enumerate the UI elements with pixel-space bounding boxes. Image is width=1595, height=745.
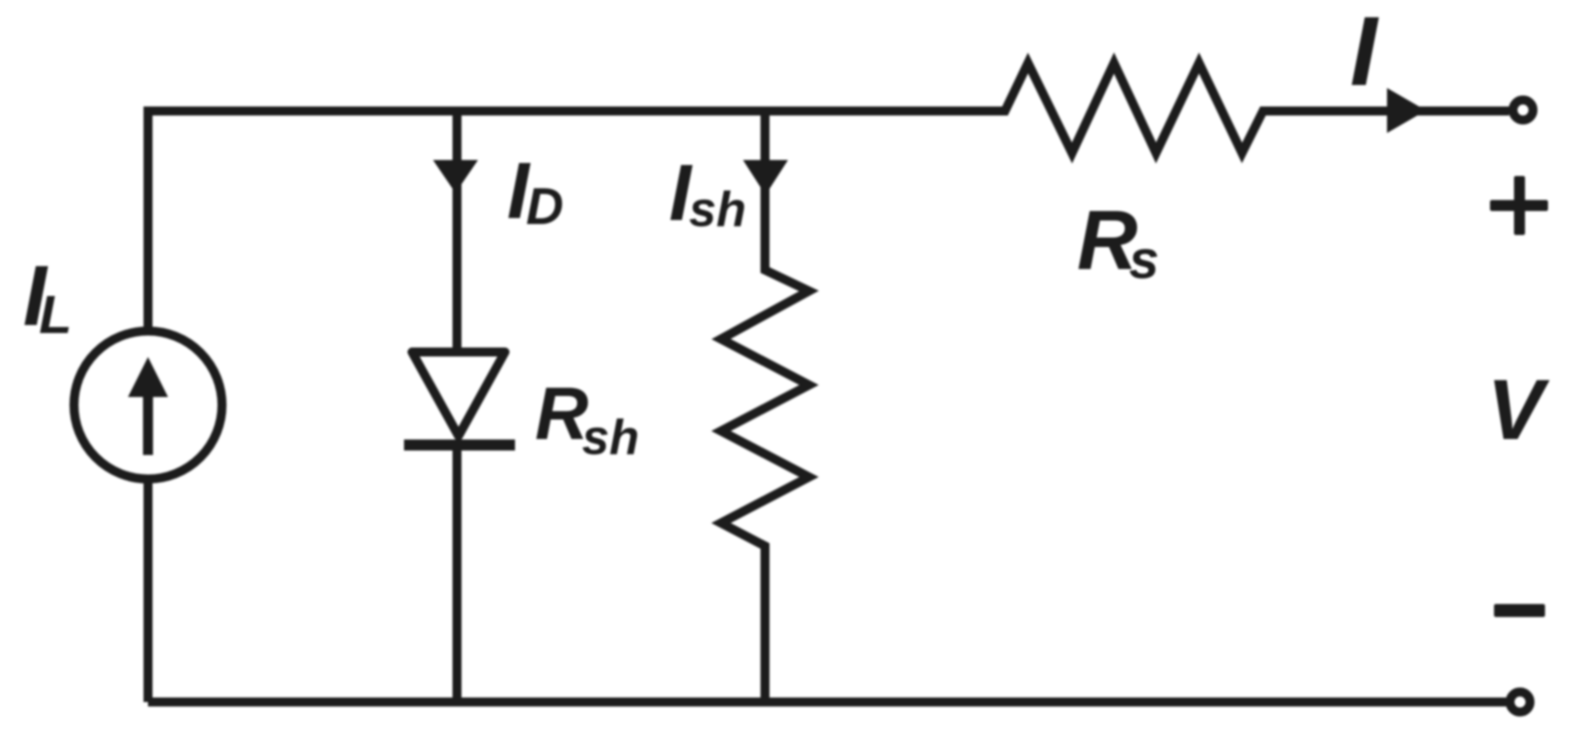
svg-text:D: D xyxy=(526,178,564,236)
svg-text:sh: sh xyxy=(582,411,639,465)
svg-text:R: R xyxy=(535,372,588,455)
svg-text:I: I xyxy=(1350,0,1379,106)
svg-text:V: V xyxy=(1487,363,1550,458)
svg-text:L: L xyxy=(39,285,72,345)
svg-text:sh: sh xyxy=(689,183,746,237)
svg-text:s: s xyxy=(1129,230,1159,290)
